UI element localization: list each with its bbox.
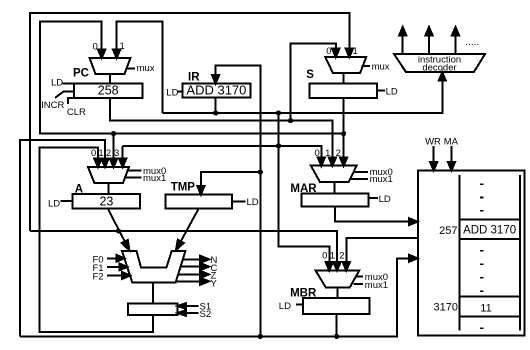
svg-text:A: A bbox=[75, 184, 83, 196]
svg-text:LD: LD bbox=[48, 199, 60, 210]
svg-text:2: 2 bbox=[106, 148, 111, 159]
svg-text:mux1: mux1 bbox=[143, 173, 166, 184]
svg-text:S2: S2 bbox=[200, 309, 212, 320]
svg-text:1: 1 bbox=[325, 148, 330, 159]
svg-text:mux: mux bbox=[372, 62, 390, 73]
svg-text:0: 0 bbox=[93, 42, 98, 53]
svg-text:1: 1 bbox=[353, 46, 358, 57]
svg-text:1: 1 bbox=[120, 41, 125, 52]
svg-text:decoder: decoder bbox=[422, 62, 456, 73]
svg-text:S: S bbox=[306, 69, 314, 81]
svg-text:0: 0 bbox=[322, 251, 327, 262]
svg-text:257: 257 bbox=[439, 225, 457, 237]
svg-text:LD: LD bbox=[51, 77, 63, 88]
svg-text:Y: Y bbox=[211, 279, 218, 290]
svg-text:0: 0 bbox=[326, 46, 331, 57]
svg-text:ADD 3170: ADD 3170 bbox=[463, 224, 516, 236]
svg-text:0: 0 bbox=[315, 148, 320, 159]
svg-text:CLR: CLR bbox=[67, 107, 86, 118]
svg-text:LD: LD bbox=[386, 87, 398, 98]
svg-text:mux: mux bbox=[137, 63, 155, 74]
svg-text:INCR: INCR bbox=[41, 100, 64, 111]
svg-text:258: 258 bbox=[98, 84, 119, 98]
svg-text:1: 1 bbox=[98, 148, 103, 159]
svg-text:3: 3 bbox=[114, 148, 119, 159]
svg-text:11: 11 bbox=[480, 303, 491, 315]
svg-text:23: 23 bbox=[99, 195, 113, 209]
svg-text:2: 2 bbox=[339, 251, 344, 262]
svg-text:LD: LD bbox=[247, 197, 259, 208]
svg-text:1: 1 bbox=[330, 251, 335, 262]
svg-text:TMP: TMP bbox=[171, 181, 196, 193]
svg-text:MAR: MAR bbox=[290, 183, 317, 195]
svg-text:LD: LD bbox=[379, 194, 391, 205]
svg-text:0: 0 bbox=[91, 148, 96, 159]
svg-text:F2: F2 bbox=[93, 272, 104, 283]
svg-text:LD: LD bbox=[279, 301, 291, 312]
svg-text:2: 2 bbox=[336, 148, 341, 159]
svg-text:PC: PC bbox=[73, 68, 89, 80]
svg-text:.....: ..... bbox=[465, 37, 479, 48]
svg-text:LD: LD bbox=[166, 87, 178, 98]
svg-text:3170: 3170 bbox=[434, 301, 458, 313]
svg-text:mux1: mux1 bbox=[370, 174, 393, 185]
svg-text:ADD 3170: ADD 3170 bbox=[186, 83, 246, 98]
svg-text:WR: WR bbox=[425, 137, 441, 148]
svg-text:MA: MA bbox=[444, 137, 459, 148]
svg-text:mux1: mux1 bbox=[365, 280, 388, 291]
svg-text:MBR: MBR bbox=[290, 287, 317, 299]
